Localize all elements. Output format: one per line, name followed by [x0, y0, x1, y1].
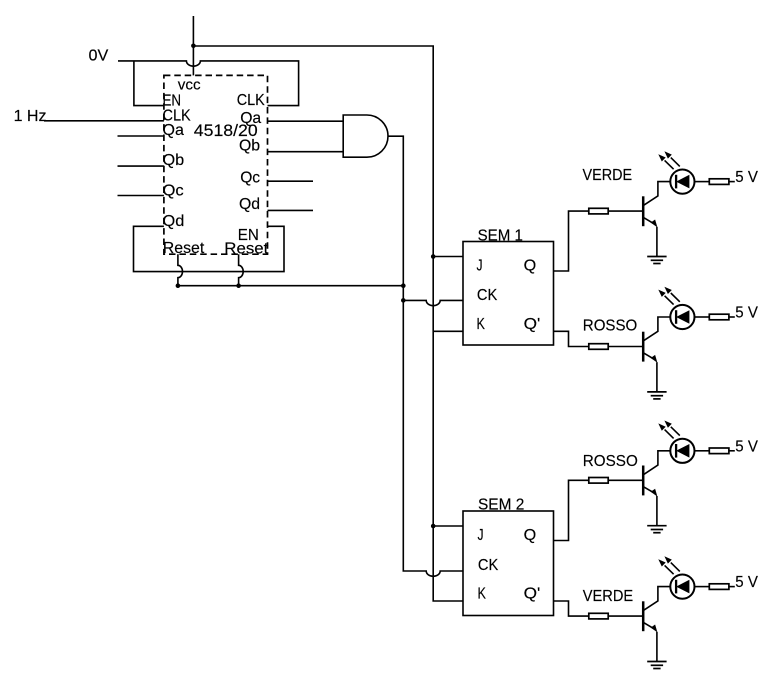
- svg-text:Qb: Qb: [163, 152, 185, 169]
- svg-text:J: J: [478, 527, 484, 544]
- svg-text:VERDE: VERDE: [583, 167, 633, 184]
- svg-text:5 V: 5 V: [735, 305, 758, 322]
- svg-text:VERDE: VERDE: [583, 588, 633, 605]
- svg-text:Qa: Qa: [163, 122, 185, 139]
- svg-text:Qc: Qc: [240, 169, 260, 186]
- svg-text:Qd: Qd: [239, 196, 260, 213]
- svg-text:CK: CK: [478, 557, 499, 574]
- svg-text:Qb: Qb: [239, 137, 260, 154]
- svg-text:CLK: CLK: [237, 92, 265, 109]
- svg-text:0V: 0V: [89, 47, 109, 64]
- svg-text:CK: CK: [477, 287, 498, 304]
- svg-text:J: J: [477, 257, 483, 274]
- svg-text:K: K: [477, 316, 486, 333]
- svg-text:ROSSO: ROSSO: [583, 453, 638, 470]
- svg-text:5 V: 5 V: [735, 169, 758, 186]
- svg-text:Q': Q': [524, 586, 541, 603]
- svg-text:1 Hz: 1 Hz: [14, 108, 47, 125]
- svg-text:SEM 2: SEM 2: [478, 497, 524, 514]
- svg-text:Q: Q: [524, 527, 537, 544]
- svg-text:5 V: 5 V: [735, 574, 758, 591]
- svg-text:Qc: Qc: [163, 182, 184, 199]
- svg-text:Q': Q': [524, 316, 541, 333]
- svg-text:Q: Q: [524, 257, 537, 274]
- svg-text:Reset: Reset: [163, 240, 205, 257]
- svg-text:Qd: Qd: [163, 213, 185, 230]
- svg-text:ROSSO: ROSSO: [583, 318, 638, 335]
- svg-text:5 V: 5 V: [735, 438, 758, 455]
- svg-text:K: K: [478, 586, 487, 603]
- svg-text:Reset: Reset: [224, 240, 269, 257]
- svg-text:vcc: vcc: [178, 76, 201, 93]
- svg-text:SEM 1: SEM 1: [478, 227, 523, 244]
- svg-text:Qa: Qa: [240, 110, 261, 127]
